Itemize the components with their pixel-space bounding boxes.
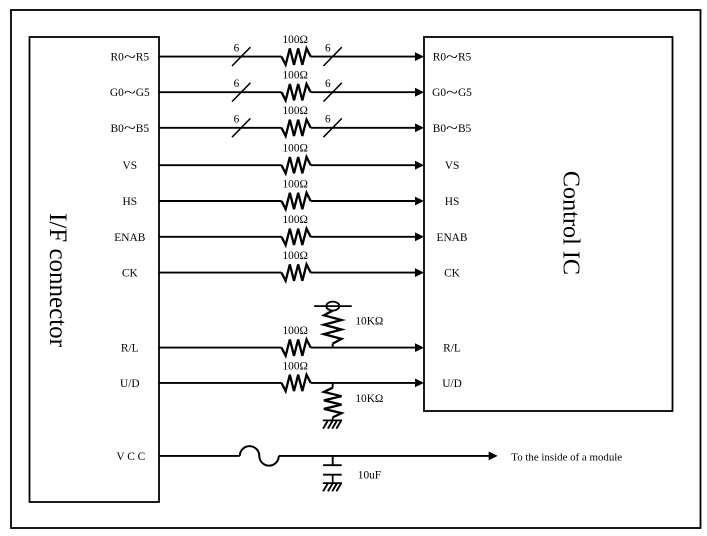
bus width slash (R0-R5) <box>232 47 250 66</box>
svg-text:10KΩ: 10KΩ <box>355 393 383 405</box>
bus width slash (B0-B5) <box>232 118 250 137</box>
wire VCC from I/F connector to bead <box>159 455 240 457</box>
capacitor C1 10uF bottom plate <box>323 474 342 476</box>
bus width slash (G0-G5) <box>323 83 341 102</box>
wire HS from resistor to Control IC <box>311 200 416 202</box>
svg-text:6: 6 <box>325 42 331 54</box>
bus width slash (R0-R5) <box>323 47 341 66</box>
svg-text:10KΩ: 10KΩ <box>355 315 383 327</box>
svg-text:100Ω: 100Ω <box>283 143 308 155</box>
svg-text:100Ω: 100Ω <box>283 178 308 190</box>
svg-text:6: 6 <box>325 114 331 126</box>
svg-text:R0~R5: R0~R5 <box>433 49 472 66</box>
pull-down resistor 10K on U/D <box>324 388 342 418</box>
bus width slash (G0-G5) <box>232 83 250 102</box>
svg-text:R/L: R/L <box>121 343 139 355</box>
resistor 100ohm on R/L line <box>282 339 311 355</box>
svg-text:I/F connector: I/F connector <box>44 213 71 348</box>
svg-text:100Ω: 100Ω <box>283 105 308 117</box>
wire ENAB from I/F connector to resistor <box>159 236 282 238</box>
wire CK from I/F connector to resistor <box>159 272 282 274</box>
wire pull-down resistor to ground <box>332 417 334 420</box>
wire B0-B5 from resistor to Control IC <box>311 127 416 129</box>
wire VS from resistor to Control IC <box>311 164 416 166</box>
resistor 100ohm on R0-R5 line <box>282 48 311 64</box>
wire G0-G5 from I/F connector to resistor <box>159 91 282 93</box>
arrowhead into Control IC (G0-G5) <box>415 88 424 97</box>
arrowhead into Control IC (U/D) <box>415 379 424 388</box>
arrowhead into Control IC (ENAB) <box>415 232 424 241</box>
wire U/D from resistor to Control IC <box>311 382 416 384</box>
svg-text:6: 6 <box>325 78 331 90</box>
svg-text:G0~G5: G0~G5 <box>432 85 472 102</box>
svg-text:VS: VS <box>123 160 138 172</box>
wire G0-G5 from resistor to Control IC <box>311 91 416 93</box>
power terminal circle <box>326 302 339 311</box>
wire B0-B5 from I/F connector to resistor <box>159 127 282 129</box>
svg-text:To the inside of a module: To the inside of a module <box>511 451 622 463</box>
svg-text:R/L: R/L <box>443 343 461 355</box>
wire VS from I/F connector to resistor <box>159 164 282 166</box>
wire U/D line to pull-down resistor <box>332 383 334 388</box>
ground symbol below pull-down <box>323 419 342 421</box>
svg-text:ENAB: ENAB <box>114 232 145 244</box>
wire R/L from I/F connector to resistor <box>159 347 282 349</box>
svg-text:V C C: V C C <box>116 451 145 463</box>
ground symbol below capacitor <box>323 482 342 484</box>
wire VCC from bead to arrow <box>279 455 489 457</box>
power terminal bar for pull-up <box>314 305 352 307</box>
wire R0-R5 from resistor to Control IC <box>311 56 416 58</box>
resistor 100ohm on B0-B5 line <box>282 120 311 136</box>
wire U/D from I/F connector to resistor <box>159 382 282 384</box>
svg-text:CK: CK <box>122 268 139 280</box>
wire VCC node to capacitor <box>332 456 334 465</box>
wire ENAB from resistor to Control IC <box>311 236 416 238</box>
svg-text:100Ω: 100Ω <box>283 325 308 337</box>
svg-text:100Ω: 100Ω <box>283 70 308 82</box>
svg-text:U/D: U/D <box>442 378 462 390</box>
svg-text:6: 6 <box>234 78 240 90</box>
svg-text:10uF: 10uF <box>358 469 381 481</box>
wire CK from resistor to Control IC <box>311 272 416 274</box>
arrowhead to inside of module <box>489 452 498 461</box>
svg-text:B0~B5: B0~B5 <box>433 120 472 137</box>
resistor 100ohm on G0-G5 line <box>282 84 311 100</box>
wire R/L from resistor to Control IC <box>311 347 416 349</box>
pull-up resistor 10K on R/L <box>324 311 342 344</box>
wire capacitor to ground <box>332 475 334 483</box>
svg-text:6: 6 <box>234 42 240 54</box>
control IC box U1 <box>424 37 673 411</box>
svg-text:100Ω: 100Ω <box>283 34 308 46</box>
svg-text:U/D: U/D <box>120 378 140 390</box>
svg-text:100Ω: 100Ω <box>283 250 308 262</box>
svg-text:R0~R5: R0~R5 <box>111 49 150 66</box>
svg-text:HS: HS <box>445 196 460 208</box>
bus width slash (B0-B5) <box>323 118 341 137</box>
resistor 100ohm on HS line <box>282 193 311 209</box>
svg-text:ENAB: ENAB <box>436 232 467 244</box>
svg-text:HS: HS <box>123 196 138 208</box>
wire pull-up resistor to R/L line <box>332 344 334 348</box>
arrowhead into Control IC (CK) <box>415 268 424 277</box>
svg-text:VS: VS <box>445 160 460 172</box>
svg-text:100Ω: 100Ω <box>283 360 308 372</box>
svg-text:100Ω: 100Ω <box>283 214 308 226</box>
svg-text:CK: CK <box>444 268 461 280</box>
svg-text:G0~G5: G0~G5 <box>110 85 150 102</box>
arrowhead into Control IC (HS) <box>415 197 424 206</box>
arrowhead into Control IC (B0-B5) <box>415 123 424 132</box>
resistor 100ohm on U/D line <box>282 375 311 391</box>
capacitor C1 10uF top plate <box>323 464 342 466</box>
svg-text:B0~B5: B0~B5 <box>111 120 150 137</box>
arrowhead into Control IC (R/L) <box>415 343 424 352</box>
arrowhead into Control IC (VS) <box>415 161 424 170</box>
svg-text:Control IC: Control IC <box>558 171 585 275</box>
arrowhead into Control IC (R0-R5) <box>415 52 424 61</box>
wire R0-R5 from I/F connector to resistor <box>159 56 282 58</box>
svg-text:6: 6 <box>234 114 240 126</box>
ferrite bead L1 on VCC <box>240 446 279 466</box>
I/F connector box <box>30 37 160 502</box>
resistor 100ohm on VS line <box>282 157 311 173</box>
resistor 100ohm on CK line <box>282 264 311 280</box>
resistor 100ohm on ENAB line <box>282 229 311 245</box>
wire HS from I/F connector to resistor <box>159 200 282 202</box>
